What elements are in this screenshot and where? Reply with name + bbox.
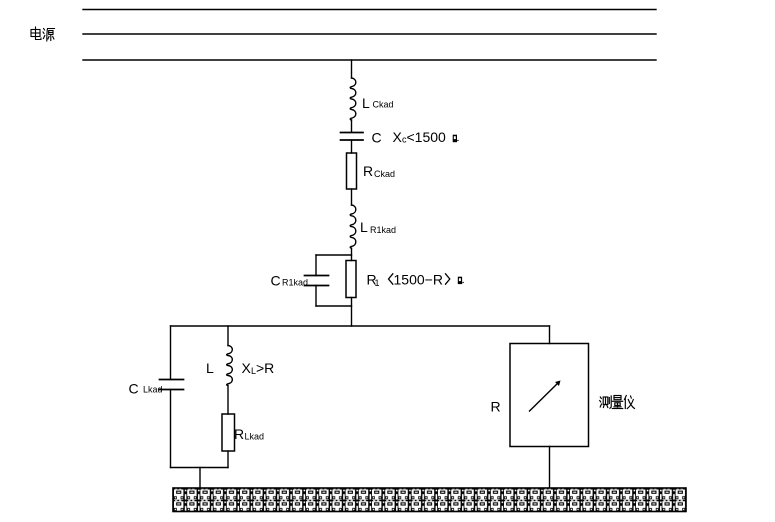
svg-text:Lkad: Lkad: [245, 432, 265, 442]
svg-text:C: C: [271, 273, 281, 289]
svg-text:L: L: [362, 95, 370, 111]
svg-text:L: L: [360, 219, 368, 235]
svg-text:L: L: [206, 360, 214, 376]
svg-text:Ckad: Ckad: [374, 169, 395, 179]
svg-text:C: C: [129, 381, 139, 397]
svg-text:Ckad: Ckad: [373, 100, 394, 110]
svg-text:1: 1: [375, 278, 380, 288]
svg-text:R: R: [491, 399, 501, 415]
svg-text:1500−R: 1500−R: [394, 272, 443, 288]
svg-text:<1500: <1500: [407, 129, 447, 145]
svg-text:X: X: [242, 360, 252, 376]
svg-text:>R: >R: [256, 360, 274, 376]
svg-text:C: C: [372, 130, 382, 146]
svg-text:X: X: [393, 129, 403, 145]
svg-text:R: R: [363, 163, 373, 179]
svg-text:R1kad: R1kad: [370, 225, 396, 235]
svg-text:R: R: [234, 426, 244, 442]
svg-text:R1kad: R1kad: [282, 278, 308, 288]
svg-text:Lkad: Lkad: [143, 385, 163, 395]
